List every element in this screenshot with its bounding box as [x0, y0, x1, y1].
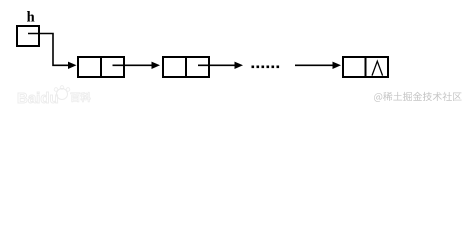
arrowhead into node 2: [152, 62, 161, 69]
ellipsis dots: [252, 66, 280, 69]
node 1 divider: [100, 57, 102, 77]
node 1 box: [78, 57, 124, 77]
svg-text:Baidu: Baidu: [17, 90, 59, 107]
wire node 1 pointer: [113, 64, 153, 66]
watermark juejin community bottom-right: [374, 92, 462, 102]
watermark Baidu Baike bottom-left: [17, 86, 91, 107]
last node box: [343, 57, 388, 77]
wire from h box to node 1: [28, 34, 70, 66]
null marker caret in last node: [372, 61, 383, 75]
svg-text:h: h: [27, 10, 35, 26]
last node divider: [365, 57, 367, 77]
wire node 2 pointer: [198, 64, 235, 66]
wire long arrow to last node: [295, 64, 333, 66]
arrowhead into node 1: [68, 62, 77, 69]
node 2 box: [163, 57, 209, 77]
arrowhead into last node: [333, 62, 342, 69]
head pointer box h: [17, 26, 39, 46]
arrowhead before dots: [235, 62, 244, 69]
node 2 divider: [185, 57, 187, 77]
node h label: [27, 10, 35, 26]
